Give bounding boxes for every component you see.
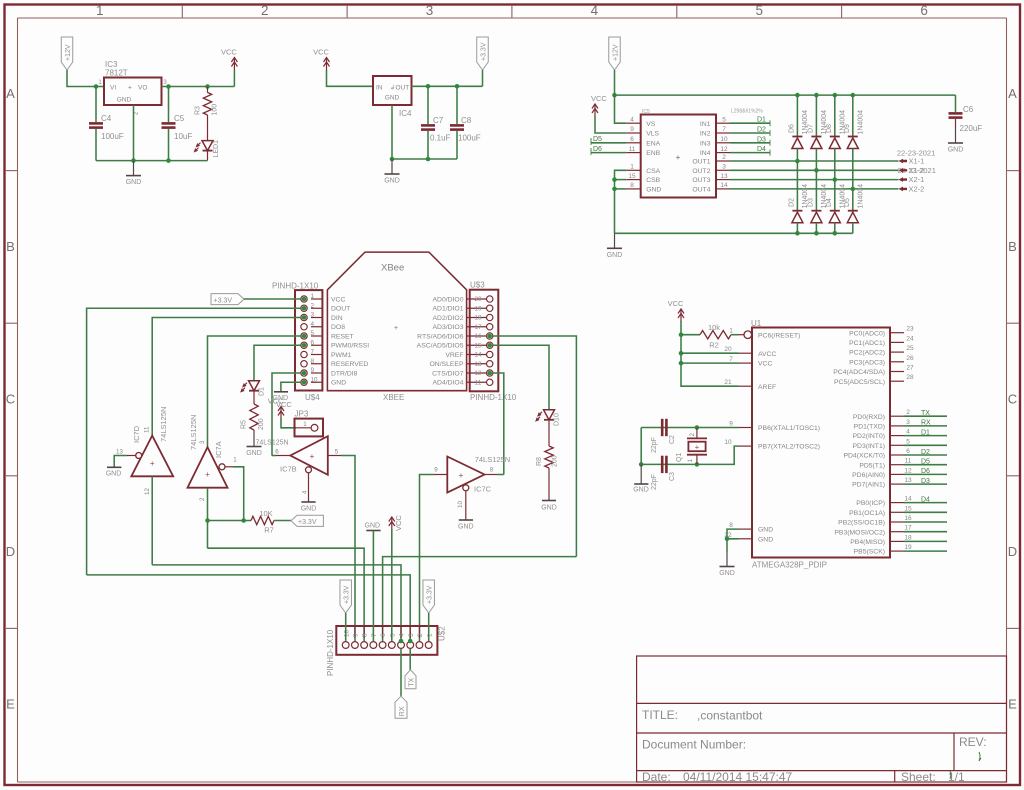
diode D6 1N4004 [792,137,803,149]
svg-text:RESET: RESET [331,333,354,340]
svg-text:20: 20 [474,296,482,303]
supply flag +3.3V (R7) [291,515,323,526]
svg-text:11: 11 [629,146,636,153]
wire U1 pin 13 net D3 [904,483,947,485]
svg-text:+: + [205,470,210,479]
svg-text:AD1/DIO1: AD1/DIO1 [433,306,464,313]
svg-text:GND: GND [758,536,773,543]
svg-text:CSA: CSA [646,168,660,175]
wire C8 bottom [456,131,458,159]
svg-text:10: 10 [343,629,350,637]
svg-text:5: 5 [722,116,726,123]
motor driver IC box [641,115,716,198]
svg-text:19: 19 [904,544,912,551]
svg-text:PWM0/RSSI: PWM0/RSSI [331,343,369,350]
wire +3.3V stem [482,70,484,86]
LED D10 [536,410,555,421]
ground (IC7C pin10) [458,520,474,531]
svg-text:B: B [6,239,15,254]
wire to VCC pin [681,362,739,364]
svg-text:IN4: IN4 [700,150,711,157]
svg-text:C2: C2 [669,435,676,444]
svg-text:PC2(ADC2): PC2(ADC2) [849,350,885,357]
svg-text:18: 18 [904,534,912,541]
node U$4 pin10 [302,380,307,385]
title block sheet mark [949,771,952,779]
svg-text:2: 2 [417,633,424,637]
svg-text:D5: D5 [593,136,602,143]
resistor R3 [207,87,209,93]
wire OUT1 to diode D2 [796,161,798,211]
wire U$4 PWM0 to LED D1 [254,345,301,380]
svg-text:U$4: U$4 [305,393,320,402]
svg-text:4: 4 [591,3,599,18]
ground (IC7D pin13) [106,467,122,477]
node U$4 pin6 [302,343,307,348]
capacitor C7 [421,124,435,131]
svg-text:2: 2 [311,302,315,309]
svg-text:ON/SLEEP: ON/SLEEP [430,361,464,368]
svg-text:C6: C6 [963,105,974,114]
VCC supply U1 [668,299,684,322]
svg-text:D1: D1 [259,387,266,396]
wire OUT3 to diode D4 [834,180,836,211]
wire diode D8 to OUT3 [834,149,836,180]
svg-text:PC6(/RESET): PC6(/RESET) [758,332,800,339]
U1 right pin stubs and numbers [890,326,914,551]
wire IC4 gnd rail [392,105,457,159]
svg-text:8: 8 [630,182,634,189]
wire U1 pin 16 net unnamed [904,521,947,523]
wire CSB [615,179,627,181]
svg-text:R8: R8 [536,457,543,466]
connector pin X2-2 [899,187,908,192]
ground (U1) [719,552,735,578]
svg-text:3: 3 [408,633,415,637]
frame column numbers top [96,3,928,18]
svg-text:6: 6 [906,448,910,455]
svg-text:Q1: Q1 [676,453,683,462]
svg-text:PC0(ADC0): PC0(ADC0) [849,330,885,337]
node R2 left [679,332,684,337]
wire U1 pin 3 net RX [904,425,947,427]
node diode top rail [833,93,838,98]
svg-text:10: 10 [724,439,732,446]
svg-text:PB4(MISO): PB4(MISO) [850,539,885,546]
wire XTAL2 row [641,446,738,464]
VCC supply [221,48,237,71]
svg-text:3: 3 [311,312,315,319]
svg-text:D8: D8 [826,124,833,133]
svg-text:5: 5 [335,449,339,456]
svg-text:VCC: VCC [591,94,607,103]
microcontroller U1 ATMEGA328P box [752,328,890,558]
diode D8 1N4004 [829,137,840,149]
node diode bottom rail [814,231,819,236]
wire IC7C pin9 to U$2 pin2 [420,475,435,642]
resistor R7 [251,516,274,524]
ground (U$2 pin7) [365,523,381,531]
wire IN1 net D1 [730,122,770,124]
wire U$3 CTS to IC7C out [493,373,504,475]
diode D3 1N4004 [811,211,822,223]
svg-text:A: A [1008,86,1017,101]
wire U1 pin 4 net D1 [904,435,947,437]
node GND pin [612,187,617,192]
wire top rail to diode D8 [834,95,836,136]
svg-text:10: 10 [457,501,464,508]
svg-text:Sheet:: Sheet: [901,770,936,784]
svg-text:1: 1 [729,328,733,335]
svg-text:U$3: U$3 [470,281,485,290]
net end tick D4 [769,150,771,156]
svg-text:LED1: LED1 [213,140,220,158]
svg-text:1: 1 [311,293,315,300]
svg-text:Date:: Date: [642,770,671,784]
svg-text:200: 200 [552,455,559,467]
wire cap join column [640,428,642,465]
svg-text:+3.3V: +3.3V [427,585,434,604]
svg-text:C7: C7 [433,116,444,125]
svg-text:C5: C5 [174,114,185,123]
svg-text:19: 19 [474,305,482,312]
svg-text:IC5: IC5 [642,109,650,115]
svg-text:GND: GND [246,450,262,457]
wire C5 top [168,87,170,123]
svg-text:74LS125N: 74LS125N [159,407,168,442]
wire diode D4 to gnd rail [834,223,836,234]
pin 13 of IC7D [127,455,136,457]
svg-text:VO: VO [138,85,147,92]
svg-text:C: C [6,392,15,407]
capacitor C6 [949,112,963,119]
svg-text:CTS/DIO7: CTS/DIO7 [432,370,464,377]
svg-text:ATMEGA328P_PDIP: ATMEGA328P_PDIP [752,561,827,570]
wire VCC to IC4 IN [327,70,374,86]
svg-text:04/11/2014 15:47:47: 04/11/2014 15:47:47 [683,770,793,784]
svg-text:16: 16 [474,333,482,340]
svg-text:ASC/AD5/DIO5: ASC/AD5/DIO5 [417,343,464,350]
svg-text:VLS: VLS [646,131,659,138]
svg-text:L298&61%2%: L298&61%2% [731,109,763,115]
svg-text:IN3: IN3 [700,140,711,147]
svg-text:1: 1 [687,459,694,463]
svg-text:OUT3: OUT3 [692,177,710,184]
svg-text:11: 11 [475,379,482,386]
node OUT1 column [795,159,800,164]
wire to AVCC [681,352,739,354]
svg-text:GND: GND [331,380,346,387]
diode D7 1N4004 [811,137,822,149]
svg-text:C8: C8 [461,116,472,125]
svg-text:4: 4 [311,321,315,328]
svg-text:PD3(INT1): PD3(INT1) [853,443,885,450]
svg-text:GND: GND [117,97,132,104]
wire U1 pin 19 net unnamed [904,550,947,552]
svg-text:D4: D4 [826,198,833,207]
wire diode D3 to gnd rail [815,223,817,234]
wire OUT4 to diode D5 [852,189,854,211]
svg-text:GND: GND [301,506,317,513]
svg-text:20: 20 [724,346,732,353]
net flag RX [395,696,407,718]
svg-text:GND: GND [541,505,557,512]
VCC supply IC4 [313,48,329,71]
svg-text:VCC: VCC [668,299,684,308]
node C5 gnd [166,158,171,163]
diode D2 1N4004 [792,211,803,223]
svg-text:RX: RX [921,420,931,427]
LED D1 [241,381,260,392]
ground (IC7B pin4) [301,502,317,513]
svg-text:D2: D2 [921,449,930,456]
node U$2 pin4 [399,639,404,644]
wire VCC to VLS [595,116,627,133]
svg-text:10k: 10k [708,323,720,332]
resistor R8 [545,446,553,468]
wire C7 top [427,86,429,124]
svg-text:8: 8 [729,522,733,529]
svg-text:PD6(AIN0): PD6(AIN0) [852,472,885,479]
pin header U$3 box [470,290,499,392]
motor IC right pin stubs [716,123,730,189]
svg-text:7: 7 [371,633,378,637]
wire OUT4 to X2-2 [730,188,899,190]
svg-text:GND: GND [385,95,400,102]
svg-text:DTR/DI8: DTR/DI8 [331,370,358,377]
wire U$4 GND pin10 [281,382,301,391]
svg-text:+12V: +12V [65,44,72,61]
svg-text:3: 3 [199,440,206,444]
svg-text:TITLE:: TITLE: [642,708,678,722]
svg-text:6: 6 [630,136,634,143]
svg-text:26: 26 [906,355,914,362]
wire GND pin [615,188,627,190]
VCC supply JP3 [268,397,284,420]
node C2 C3 gnd join [639,462,644,467]
svg-text:GND: GND [633,487,649,494]
svg-text:DIN: DIN [331,315,343,322]
U1 left pin names [758,332,820,543]
svg-text:6: 6 [275,449,279,456]
svg-text:VCC: VCC [276,400,292,409]
wire U1 pin 6 net D2 [904,454,947,456]
svg-text:E: E [1008,697,1017,712]
svg-text:X2-2: X2-2 [909,185,925,194]
svg-text:VREF: VREF [445,352,463,359]
diode D9 1N4004 [847,137,858,149]
wire XTAL1 row [641,427,738,429]
svg-text:PC1(ADC1): PC1(ADC1) [849,340,885,347]
wire U$4 DOUT long [87,308,301,575]
svg-text:220uF: 220uF [960,124,983,133]
motor IC left pin stubs [627,123,641,189]
node +12V corner [612,93,617,98]
svg-text:R5: R5 [241,420,248,429]
svg-text:GND: GND [948,147,964,154]
svg-text:10: 10 [720,136,728,143]
ground (IC4) [384,159,400,185]
svg-text:100uF: 100uF [101,132,124,141]
svg-text:6: 6 [380,633,387,637]
node crystal top [695,425,700,430]
VCC supply motor [592,104,598,117]
svg-text:2: 2 [199,497,206,501]
wire IN3 net D3 [730,142,770,144]
svg-text:PB6(XTAL1/TOSC1): PB6(XTAL1/TOSC1) [758,425,820,432]
net end tick D3 [769,140,771,146]
wire U1 pin 18 net unnamed [904,540,947,542]
svg-text:+3.3V: +3.3V [214,297,233,304]
svg-text:AD0/DIO0: AD0/DIO0 [433,296,464,303]
svg-text:22pF: 22pF [651,474,658,490]
svg-text:X1-2: X1-2 [909,166,925,175]
svg-text:5: 5 [389,633,396,637]
svg-text:ENB: ENB [646,150,660,157]
capacitor C3 [661,456,668,473]
svg-text:PINHD-1X10: PINHD-1X10 [272,282,319,291]
svg-text:GND: GND [384,178,400,185]
svg-text:14: 14 [904,496,912,503]
svg-text:1N4004: 1N4004 [857,184,864,209]
wire VCC to pin5 [391,529,393,641]
supply flag +12V motor [609,37,621,70]
wire VCC stem U1 [680,321,682,335]
svg-text:+: + [128,85,132,92]
svg-text:PD0(RXD): PD0(RXD) [853,414,885,421]
wire +3.3V to pin10 [345,613,347,641]
wire IC7B pin6 [272,455,276,457]
svg-text:1: 1 [426,633,433,637]
node U$3 pin16 [487,334,492,339]
wire C6 top [955,95,957,112]
node diode top rail [851,93,856,98]
node IC3 input / C4 [94,84,99,89]
wire U$4 DTR to IC7B in [272,373,301,456]
svg-text:17: 17 [474,324,482,331]
svg-text:XBEE: XBEE [383,393,404,402]
svg-text:E: E [6,697,15,712]
svg-text:VCC: VCC [313,48,329,57]
wire IN4 net D4 [730,152,770,154]
U$2 pin circles and stubs [342,626,432,648]
svg-text:+3.3V: +3.3V [344,585,351,604]
wire diode D5 to gnd rail [852,223,854,234]
svg-text:PB7(XTAL2/TOSC2): PB7(XTAL2/TOSC2) [758,444,820,451]
node C8 top [455,84,460,89]
svg-text:D1: D1 [921,429,930,436]
node diode bottom rail [795,231,800,236]
svg-text:AD2/DIO2: AD2/DIO2 [433,315,464,322]
svg-text:200: 200 [258,418,265,430]
svg-text:D7: D7 [807,124,814,133]
frame column ticks top [182,5,841,18]
wire IC3 GND pin [133,105,135,161]
svg-text:D9: D9 [844,124,851,133]
svg-text:3: 3 [906,419,910,426]
svg-text:TX: TX [409,678,416,687]
svg-text:JP3: JP3 [295,410,309,419]
node U$4 pin5 [302,334,307,339]
svg-text:7: 7 [722,126,726,133]
svg-text:9: 9 [311,367,315,374]
svg-text:4: 4 [630,116,634,123]
svg-text:7812T: 7812T [105,69,128,78]
node R7 junction [241,518,246,523]
net flag TX [405,670,416,689]
U1 reset pin bubble [744,331,752,339]
wire IC3 VO to VCC [162,86,235,88]
svg-text:D5: D5 [921,459,930,466]
wire C4 bottom [95,129,97,161]
wire VCC junction to R2 [681,334,700,336]
svg-text:R2: R2 [709,341,719,350]
svg-text:D3: D3 [807,198,814,207]
ground (C6) [948,128,964,154]
ground (motor rail) [607,233,623,258]
svg-text:D3: D3 [757,136,766,143]
motor IC left pin numbers [628,116,636,189]
svg-text:1N4004: 1N4004 [857,110,864,135]
svg-text:D2: D2 [757,127,766,134]
regulator IC3 7812T [104,78,162,106]
svg-text:C: C [1008,392,1017,407]
wire diode D7 to OUT2 [815,149,817,171]
svg-text:+: + [394,325,398,332]
svg-text:2: 2 [906,409,910,416]
wire OUT3 to X2-1 [730,179,899,181]
U$4 pin numbers [311,293,319,383]
svg-text:IN: IN [376,85,383,92]
svg-text:C4: C4 [101,114,112,123]
svg-text:1: 1 [630,164,634,171]
wire R2 to reset pin [731,334,739,336]
svg-text:D4: D4 [921,496,930,503]
XBee right pin names [417,296,464,386]
wire U1 pin 12 net D6 [904,473,947,475]
wire OUT2 to X1-2 [730,169,899,171]
svg-text:GND: GND [126,179,142,186]
svg-text:2: 2 [689,433,696,437]
svg-text:↲OUT: ↲OUT [390,84,409,92]
svg-text:U1: U1 [751,319,762,328]
svg-text:2: 2 [722,154,726,161]
node diode bottom rail [833,231,838,236]
svg-text:8: 8 [490,467,494,474]
resistor R2 [700,331,731,339]
svg-text:3: 3 [722,164,726,171]
svg-text:10uF: 10uF [174,132,192,141]
svg-text:7: 7 [729,356,733,363]
svg-text:VCC: VCC [221,48,237,57]
svg-text:C3: C3 [669,472,676,481]
svg-text:VCC: VCC [394,515,403,531]
svg-text:23: 23 [906,326,914,333]
svg-text:74LS125N: 74LS125N [256,440,289,447]
svg-text:6: 6 [311,339,315,346]
svg-text:18: 18 [474,315,482,322]
svg-text:13: 13 [116,449,123,456]
svg-text:IN2: IN2 [700,131,711,138]
svg-text:GND: GND [607,252,623,259]
svg-text:OUT4: OUT4 [692,187,710,194]
wire bus IC7D to U$2 pin4 [152,565,401,641]
svg-text:IC4: IC4 [399,109,412,118]
node U$3 pin12 [487,371,492,376]
svg-text:+: + [676,153,681,162]
svg-text:PD4(XCK/T0): PD4(XCK/T0) [843,453,885,460]
buffer IC7B 74LS125N [290,436,328,475]
